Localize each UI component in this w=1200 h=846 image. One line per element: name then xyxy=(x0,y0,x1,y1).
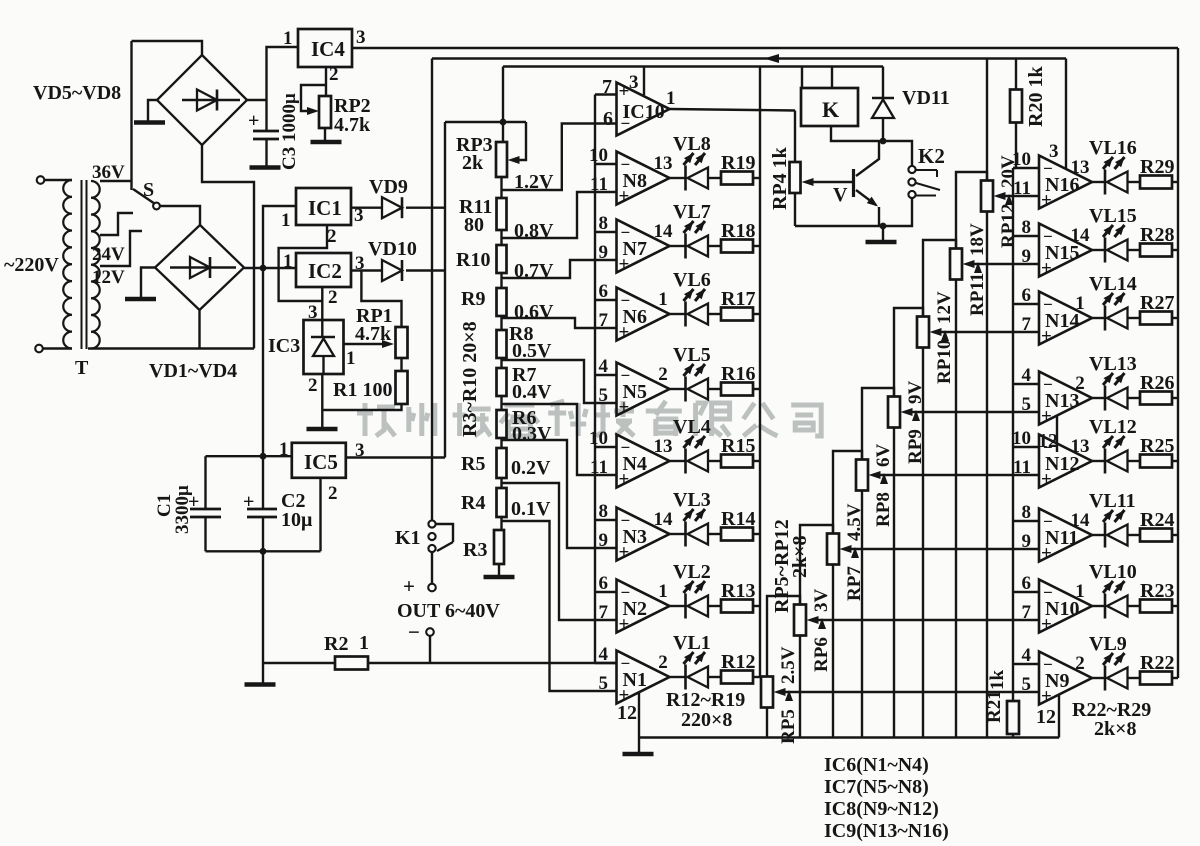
svg-text:R19: R19 xyxy=(721,152,755,174)
svg-text:8: 8 xyxy=(599,501,609,522)
wire LED to R23 xyxy=(1128,605,1141,607)
svg-text:IC5: IC5 xyxy=(304,450,338,474)
wire N10 output to LED xyxy=(1092,605,1105,607)
wire S to bridge VD1-VD4 xyxy=(160,206,200,225)
wire staircase step RP6 top xyxy=(800,525,833,605)
svg-text:9: 9 xyxy=(599,530,609,551)
op-amp N15 xyxy=(1039,224,1092,277)
wire 12V tap step xyxy=(100,231,142,266)
svg-text:R1 100: R1 100 xyxy=(333,379,392,401)
potentiometer RP4 1k xyxy=(794,111,796,163)
svg-text:−: − xyxy=(621,223,631,242)
svg-text:VL4: VL4 xyxy=(673,416,711,438)
wire IC3 pin1 to RP1 wiper xyxy=(344,343,384,345)
svg-text:4.7k: 4.7k xyxy=(355,323,392,345)
wire bridge1 left vertex stub xyxy=(148,100,157,121)
wire 0.6V tap to N6 xyxy=(502,318,617,328)
svg-text:6: 6 xyxy=(1022,285,1032,306)
resistor R24 xyxy=(1140,529,1172,542)
svg-text:7: 7 xyxy=(1022,602,1032,623)
svg-text:13: 13 xyxy=(654,153,673,174)
svg-text:R13: R13 xyxy=(721,580,755,602)
wire LED to R15 xyxy=(708,460,721,462)
svg-text:−: − xyxy=(1043,583,1053,602)
svg-text:11: 11 xyxy=(1013,178,1031,199)
svg-text:7: 7 xyxy=(599,310,609,331)
svg-text:VL6: VL6 xyxy=(673,269,711,291)
wire 0.2V tap to N2 xyxy=(502,483,617,620)
wire N14 output to LED xyxy=(1092,317,1105,319)
svg-text:8: 8 xyxy=(1022,502,1032,523)
capacitor C1 3300u xyxy=(204,456,206,509)
wire R22 to right rail xyxy=(1172,677,1178,679)
svg-text:5: 5 xyxy=(1022,394,1032,415)
op-amp N11 xyxy=(1039,509,1092,562)
svg-text:R10: R10 xyxy=(456,249,490,271)
wire ground to R2 xyxy=(263,662,335,664)
wire IC1 pin2 to reference node xyxy=(279,225,327,301)
svg-text:14: 14 xyxy=(1071,510,1091,531)
op-amp N9 xyxy=(1039,652,1092,705)
svg-text:−: − xyxy=(621,654,631,673)
LED rail left column xyxy=(759,67,761,678)
wire R23 to right rail xyxy=(1172,605,1178,607)
svg-text:10: 10 xyxy=(589,145,608,166)
wire RP5 bottom to ground rail xyxy=(766,708,768,738)
svg-text:R26: R26 xyxy=(1140,372,1174,394)
resistor R25 xyxy=(1140,455,1172,468)
wire R24 to right rail xyxy=(1172,534,1178,536)
wire OUT- to sense line xyxy=(429,636,431,663)
svg-text:T: T xyxy=(75,357,89,379)
svg-text:+: + xyxy=(619,397,630,418)
wire N4 output to LED xyxy=(670,460,686,462)
wire RP6 bottom to ground rail xyxy=(799,636,801,738)
svg-text:−: − xyxy=(621,511,631,530)
wire 24V tap step xyxy=(100,213,133,235)
svg-text:R12: R12 xyxy=(721,651,755,673)
wire R17 to LED rail xyxy=(753,313,760,315)
wire RP10 bottom to ground rail xyxy=(922,348,924,738)
wire AC bottom to primary xyxy=(43,347,72,349)
wire IC4 pin2 to RP2 xyxy=(325,67,327,96)
terminal circle OUT- xyxy=(426,628,434,636)
wire staircase step RP10 top xyxy=(923,240,956,317)
svg-text:12V: 12V xyxy=(92,267,125,288)
svg-text:1: 1 xyxy=(283,251,293,272)
wire bridge1 right vertex to IC4 input xyxy=(247,99,267,101)
wire C1 C2 bottom / IC5 pin2 xyxy=(206,550,321,552)
resistor R26 xyxy=(1140,392,1172,405)
wire bridge2 left vertex stub xyxy=(141,268,155,298)
diode VD9 xyxy=(382,197,402,218)
resistor R1 100 xyxy=(396,371,408,404)
op-amp N16 xyxy=(1039,156,1092,209)
svg-text:3: 3 xyxy=(356,27,366,48)
svg-text:OUT 6~40V: OUT 6~40V xyxy=(397,600,500,622)
svg-text:VL1: VL1 xyxy=(673,632,711,654)
wire RP2 bottom xyxy=(324,128,326,140)
regulator IC5 xyxy=(292,443,346,478)
terminal circle top (AC input) xyxy=(37,176,45,184)
svg-text:6V: 6V xyxy=(873,444,894,468)
regulator IC2 xyxy=(296,253,351,287)
svg-text:VD5~VD8: VD5~VD8 xyxy=(33,82,121,104)
wire N3 output to LED xyxy=(670,533,686,535)
svg-text:R20 1k: R20 1k xyxy=(1025,66,1047,127)
resistor R7 xyxy=(497,368,507,396)
svg-text:6: 6 xyxy=(1022,573,1032,594)
svg-text:1: 1 xyxy=(1075,293,1085,314)
wire IC5 pin1 xyxy=(206,455,292,457)
switch K1 xyxy=(428,520,435,527)
svg-text:3: 3 xyxy=(308,302,318,323)
junction dot emitter node xyxy=(880,223,887,230)
svg-text:IC8(N9~N12): IC8(N9~N12) xyxy=(824,798,939,820)
svg-text:0.4V: 0.4V xyxy=(512,381,552,403)
ground bar IC3 xyxy=(307,427,338,432)
resistor R20 1k xyxy=(1015,59,1017,90)
svg-text:0.1V: 0.1V xyxy=(511,498,551,520)
wire 0.8V tap to N8 xyxy=(502,192,617,238)
resistor R15 xyxy=(721,455,753,468)
LED VL14 xyxy=(1104,306,1107,331)
bridge rectifier VD5~VD8 xyxy=(157,55,247,145)
svg-text:+: + xyxy=(1041,326,1052,347)
svg-text:+: + xyxy=(619,81,630,102)
svg-text:VL14: VL14 xyxy=(1089,273,1137,295)
svg-text:VL16: VL16 xyxy=(1089,137,1137,159)
wire RP8 bottom to ground rail xyxy=(861,491,863,738)
svg-text:RP4 1k: RP4 1k xyxy=(769,146,791,210)
wire R29 to right rail xyxy=(1172,181,1178,183)
svg-text:VL8: VL8 xyxy=(673,133,711,155)
wire R18 to LED rail xyxy=(753,245,760,247)
LED VL6 xyxy=(684,302,687,327)
op-amp N1 xyxy=(617,651,670,704)
svg-text:VL13: VL13 xyxy=(1089,353,1137,375)
resistor R12 xyxy=(721,671,753,684)
wire RP8 wiper to comparator xyxy=(880,474,1039,476)
wire bridge1 top to 36V riser xyxy=(132,41,203,55)
svg-text:RP10: RP10 xyxy=(934,340,955,384)
pin 7 IC10 wire xyxy=(595,93,617,95)
pin 12 N1 wire xyxy=(638,693,640,738)
svg-text:1: 1 xyxy=(279,439,289,460)
wire staircase step RP8 top xyxy=(862,388,894,460)
bottom ground rail xyxy=(639,736,1059,738)
pin 6 N10 wire xyxy=(1013,591,1039,593)
wire K2 bottom to emitter node xyxy=(883,199,912,227)
resistor R29 xyxy=(1140,176,1172,189)
svg-text:1: 1 xyxy=(666,88,676,109)
ground bar C3 xyxy=(250,165,281,170)
resistor R2 xyxy=(335,657,368,670)
wire staircase step RP7 top xyxy=(833,451,862,534)
capacitor C2 10u xyxy=(247,508,277,511)
resistor R27 xyxy=(1140,312,1172,325)
wire RP12 riser from rail xyxy=(986,59,988,181)
svg-text:4.7k: 4.7k xyxy=(334,114,371,136)
svg-text:R29: R29 xyxy=(1140,156,1174,178)
svg-text:+: + xyxy=(619,542,630,563)
wire 0.7V tap to N7 xyxy=(502,260,617,278)
svg-text:VL7: VL7 xyxy=(673,201,711,223)
wire LED to R14 xyxy=(708,533,721,535)
svg-text:−: − xyxy=(621,114,631,133)
svg-text:13: 13 xyxy=(1071,436,1090,457)
resistor R4 xyxy=(497,488,507,517)
wire DC+ to IC5 pin1 xyxy=(262,268,264,456)
pin 4 N13 wire xyxy=(1013,383,1039,385)
svg-text:10: 10 xyxy=(1012,149,1031,170)
svg-text:−: − xyxy=(1043,159,1053,178)
wire LED to R24 xyxy=(1128,534,1141,536)
wire transformer bottom return xyxy=(88,347,254,349)
svg-text:R28: R28 xyxy=(1140,224,1174,246)
wire N16 output to LED xyxy=(1092,181,1105,183)
svg-text:14: 14 xyxy=(1071,225,1091,246)
svg-text:+: + xyxy=(1041,469,1052,490)
svg-text:R2: R2 xyxy=(324,633,348,655)
wire RP10 wiper to comparator xyxy=(941,331,1039,333)
svg-text:RP12: RP12 xyxy=(998,204,1019,248)
svg-text:3300μ: 3300μ xyxy=(172,485,193,534)
wire RP12 bottom to ground rail xyxy=(986,212,988,738)
wire 0.4V tap to N4 xyxy=(502,404,617,475)
LED VL12 xyxy=(1104,449,1107,474)
svg-text:2k×8: 2k×8 xyxy=(789,535,811,578)
svg-text:R4: R4 xyxy=(461,492,485,514)
svg-text:R22: R22 xyxy=(1140,652,1174,674)
pin 8 N3 wire xyxy=(595,519,617,521)
ground bar main xyxy=(245,682,276,687)
op-amp N8 xyxy=(617,152,670,205)
svg-text:2: 2 xyxy=(658,652,668,673)
LED VL9 xyxy=(1104,666,1107,691)
svg-text:14: 14 xyxy=(654,509,674,530)
resistor R14 xyxy=(721,528,753,541)
svg-text:1: 1 xyxy=(1075,581,1085,602)
svg-text:IC4: IC4 xyxy=(311,37,345,61)
wire R7 to R6 xyxy=(500,396,502,410)
svg-text:+: + xyxy=(1041,614,1052,635)
svg-text:220×8: 220×8 xyxy=(681,709,732,731)
ground bar emitter xyxy=(866,240,897,245)
wire K bottom to collector node xyxy=(831,126,883,141)
LED VL8 xyxy=(684,166,687,191)
svg-text:RP5: RP5 xyxy=(778,709,799,744)
ground bar at bridge1 left xyxy=(134,120,165,125)
svg-text:R3~R10 20×8: R3~R10 20×8 xyxy=(459,321,481,437)
wire RP1 top to VD10 node xyxy=(361,271,401,328)
svg-text:−: − xyxy=(621,583,631,602)
svg-text:2k×8: 2k×8 xyxy=(1094,718,1137,740)
LED VL1 xyxy=(684,665,687,690)
wire 0.3V tap to N3 xyxy=(502,440,617,548)
svg-text:2: 2 xyxy=(328,483,338,504)
potentiometer RP9 xyxy=(888,397,900,428)
transformer core xyxy=(81,180,83,349)
transistor V xyxy=(852,169,855,197)
wire IC1 pin3 to VD9 xyxy=(351,206,382,208)
wire riser to rail2 xyxy=(431,59,433,521)
ground bar at bridge2 left xyxy=(125,297,156,302)
wire reference riser xyxy=(444,122,446,458)
svg-text:+: + xyxy=(1041,543,1052,564)
svg-text:24V: 24V xyxy=(92,244,125,265)
wire relay supply riser left xyxy=(801,67,803,89)
svg-text:+: + xyxy=(1041,686,1052,707)
svg-text:0.5V: 0.5V xyxy=(512,340,552,362)
svg-text:−: − xyxy=(1043,512,1053,531)
wire staircase step RP9 top xyxy=(894,308,923,397)
svg-text:R24: R24 xyxy=(1140,509,1174,531)
potentiometer RP11 xyxy=(950,249,962,280)
svg-text:VL10: VL10 xyxy=(1089,561,1137,583)
LED VL7 xyxy=(684,234,687,259)
svg-text:11: 11 xyxy=(590,174,608,195)
wire RP3 to R11 xyxy=(500,177,502,198)
svg-text:4.5V: 4.5V xyxy=(844,503,865,541)
svg-text:VD1~VD4: VD1~VD4 xyxy=(149,360,237,382)
wire LED to R26 xyxy=(1128,397,1141,399)
potentiometer RP10 xyxy=(917,317,929,348)
svg-text:5: 5 xyxy=(599,385,609,406)
svg-text:R15: R15 xyxy=(721,435,755,457)
pin 6 N14 wire xyxy=(1013,303,1039,305)
resistor R9 xyxy=(497,288,507,316)
resistor R3 xyxy=(494,530,504,564)
LED VL16 xyxy=(1104,170,1107,195)
wire bridge2 bottom stub xyxy=(198,310,200,349)
resistor R11 80 xyxy=(497,198,507,230)
svg-text:−: − xyxy=(1043,227,1053,246)
svg-text:2: 2 xyxy=(308,375,318,396)
pin 8 N7 wire xyxy=(595,231,617,233)
svg-text:7: 7 xyxy=(1022,314,1032,335)
svg-text:IC3: IC3 xyxy=(268,335,300,357)
svg-text:7: 7 xyxy=(599,602,609,623)
svg-text:9: 9 xyxy=(599,242,609,263)
svg-text:8: 8 xyxy=(599,213,609,234)
svg-text:1: 1 xyxy=(283,28,293,49)
svg-text:R12~R19: R12~R19 xyxy=(666,689,745,711)
pin 3 IC10 V+ stub xyxy=(643,67,645,96)
potentiometer RP12 xyxy=(981,181,993,212)
switch K2 xyxy=(908,166,915,173)
svg-text:4: 4 xyxy=(1022,365,1032,386)
wire RP7 wiper to comparator xyxy=(851,548,1039,550)
wire R1 bottom to IC3 pin2 xyxy=(322,404,401,410)
svg-text:VL3: VL3 xyxy=(673,489,711,511)
wire 0.5V tap to N5 xyxy=(502,360,617,403)
wire RP5 wiper to comparator xyxy=(785,691,1039,693)
svg-text:1: 1 xyxy=(658,289,668,310)
wire R14 to LED rail xyxy=(753,533,760,535)
wire IC2 pin2 to IC3 xyxy=(321,287,323,320)
wire 1.2V tap to IC10 pin6 xyxy=(502,124,617,191)
junction dot collector node xyxy=(880,138,887,145)
svg-text:+: + xyxy=(619,614,630,635)
junction dot RP3 top xyxy=(500,119,507,126)
svg-text:RP8: RP8 xyxy=(873,492,894,527)
op-amp N12 xyxy=(1039,435,1092,488)
svg-text:+: + xyxy=(1041,406,1052,427)
wire LED to R27 xyxy=(1128,317,1141,319)
svg-text:2: 2 xyxy=(658,364,668,385)
capacitor C3 1000u xyxy=(265,100,267,131)
wire RP9 wiper to comparator xyxy=(912,411,1039,413)
wire R10 to R9 xyxy=(500,273,502,288)
svg-text:4: 4 xyxy=(1022,645,1032,666)
LED VL2 xyxy=(684,594,687,619)
svg-text:2.5V: 2.5V xyxy=(778,646,799,684)
svg-text:IC1: IC1 xyxy=(308,196,342,220)
wire R13 to LED rail xyxy=(753,605,760,607)
svg-text:13: 13 xyxy=(1071,157,1090,178)
svg-text:5: 5 xyxy=(599,673,609,694)
resistor R10 xyxy=(497,245,507,273)
wire N1 output to LED xyxy=(670,676,686,678)
pin 8 N15 wire xyxy=(1013,235,1039,237)
wire IC1 pin1 xyxy=(263,206,296,268)
resistor R21 1k xyxy=(1012,664,1014,701)
pin 4 N5 wire xyxy=(595,374,617,376)
svg-text:RP9: RP9 xyxy=(905,429,926,464)
pin 10 N8 wire xyxy=(595,163,617,165)
LED VL4 xyxy=(684,449,687,474)
svg-text:1k: 1k xyxy=(987,670,1008,691)
svg-text:R27: R27 xyxy=(1140,292,1174,314)
regulator IC1 xyxy=(296,188,351,225)
wire reference line y122 xyxy=(445,121,526,123)
wire RP9 bottom to ground rail xyxy=(893,428,895,738)
svg-text:C3 1000μ: C3 1000μ xyxy=(279,93,300,170)
shunt reference IC3 xyxy=(304,320,344,374)
svg-text:R23: R23 xyxy=(1140,580,1174,602)
wire N7 output to LED xyxy=(670,245,686,247)
wire LED to R16 xyxy=(708,388,721,390)
op-amp N13 xyxy=(1039,372,1092,425)
op-amp N7 xyxy=(617,220,670,273)
svg-text:12V: 12V xyxy=(934,291,955,324)
svg-text:−: − xyxy=(408,620,420,644)
svg-text:11: 11 xyxy=(590,457,608,478)
potentiometer RP1 4.7k xyxy=(396,327,408,358)
op-amp N6 xyxy=(617,288,670,341)
wire R28 to right rail xyxy=(1172,249,1178,251)
wire 36V riser to bridge VD5-VD8 xyxy=(130,41,132,190)
svg-text:36V: 36V xyxy=(92,162,125,183)
switch S xyxy=(153,203,160,210)
svg-text:+: + xyxy=(1041,190,1052,211)
resistor R5 xyxy=(497,448,507,478)
ground stem bottom rail xyxy=(638,738,640,753)
svg-text:−: − xyxy=(621,155,631,174)
wire riser RP3 top to supply line xyxy=(502,67,504,143)
svg-text:VL2: VL2 xyxy=(673,561,711,583)
svg-text:80: 80 xyxy=(464,214,484,236)
wire 36V tap xyxy=(100,180,132,182)
wire RP11 bottom to ground rail xyxy=(955,280,957,738)
wire R16 to LED rail xyxy=(753,388,760,390)
potentiometer RP2 4.7k xyxy=(319,96,331,128)
svg-text:12: 12 xyxy=(1038,430,1058,452)
wire R15 to LED rail xyxy=(753,460,760,462)
transformer T secondary winding xyxy=(91,181,100,349)
svg-text:2: 2 xyxy=(1075,373,1085,394)
